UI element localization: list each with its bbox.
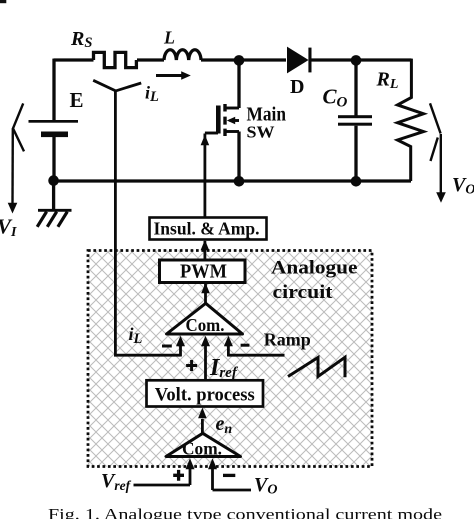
plus sign middle: [186, 360, 197, 371]
battery E: [29, 120, 79, 176]
wire top rail: [54, 58, 412, 61]
wire ramp input: [228, 354, 284, 357]
svg-text:D: D: [290, 76, 304, 98]
arrow en to Volt process: [198, 408, 207, 434]
resistor RL: [398, 59, 424, 181]
wire bottom rail: [54, 179, 411, 182]
node source bottom: [234, 176, 245, 187]
arrow VO measurement: [430, 103, 446, 203]
minus sign right: [241, 344, 250, 347]
analogue circuit hatched box: [88, 251, 372, 467]
arrow PWM to Insul: [201, 240, 210, 282]
arrow Vref into lower comparator: [186, 458, 195, 485]
op-amp comparator lower Com.: [166, 433, 241, 458]
svg-text:Fig. 1. Analogue type convent: Fig. 1. Analogue type conventional curre…: [48, 506, 442, 519]
ground: [37, 183, 71, 227]
arrow Ramp into comparator: [224, 336, 233, 357]
arrow comparator to PWM: [201, 283, 210, 304]
arrow iL current: [156, 71, 191, 80]
svg-text:SW: SW: [247, 123, 275, 142]
current sense probe (Y pickup): [93, 80, 141, 91]
minus sign left: [162, 345, 172, 348]
node drain top: [234, 55, 245, 66]
resistor RS: [94, 52, 137, 67]
inductor L: [164, 50, 201, 60]
diode D: [287, 47, 312, 74]
svg-text:Insul. & Amp.: Insul. & Amp.: [154, 219, 260, 239]
svg-text:Ramp: Ramp: [264, 330, 311, 350]
stray glyph fragment top-left corner: [0, 0, 6, 3]
node CO bottom: [351, 176, 362, 187]
svg-text:E: E: [70, 88, 84, 112]
svg-text:Volt. process: Volt. process: [155, 385, 255, 406]
svg-text:PWM: PWM: [180, 261, 227, 282]
node diode-cathode: [351, 55, 362, 66]
arrow iL into comparator: [176, 336, 185, 357]
arrow VI measurement: [8, 103, 24, 213]
minus sign VO: [223, 474, 235, 477]
svg-text:circuit: circuit: [273, 282, 334, 303]
svg-text:Analogue: Analogue: [271, 257, 358, 278]
transistor Main SW (MOSFET): [205, 60, 239, 178]
wire left branch: [52, 59, 55, 121]
box PWM: [160, 260, 246, 283]
op-amp comparator upper Com.: [167, 303, 243, 335]
svg-text:Com.: Com.: [186, 315, 225, 335]
box Volt. process: [147, 380, 264, 406]
wire VO feedback: [213, 489, 252, 492]
ramp waveform: [288, 357, 345, 377]
wire Vref: [134, 484, 191, 487]
capacitor CO: [338, 60, 372, 181]
wire iL input jog: [114, 354, 181, 357]
box Insul. & Amp.: [150, 218, 267, 240]
svg-text:Com.: Com.: [182, 439, 222, 459]
svg-text:L: L: [163, 28, 175, 48]
wire gate control: [201, 134, 210, 218]
arrow VO into lower comparator: [208, 458, 217, 490]
wire iL sense stem: [114, 91, 117, 355]
arrow Iref into comparator: [201, 336, 210, 380]
plus sign Vref: [173, 470, 184, 481]
node battery-ground: [48, 175, 59, 186]
